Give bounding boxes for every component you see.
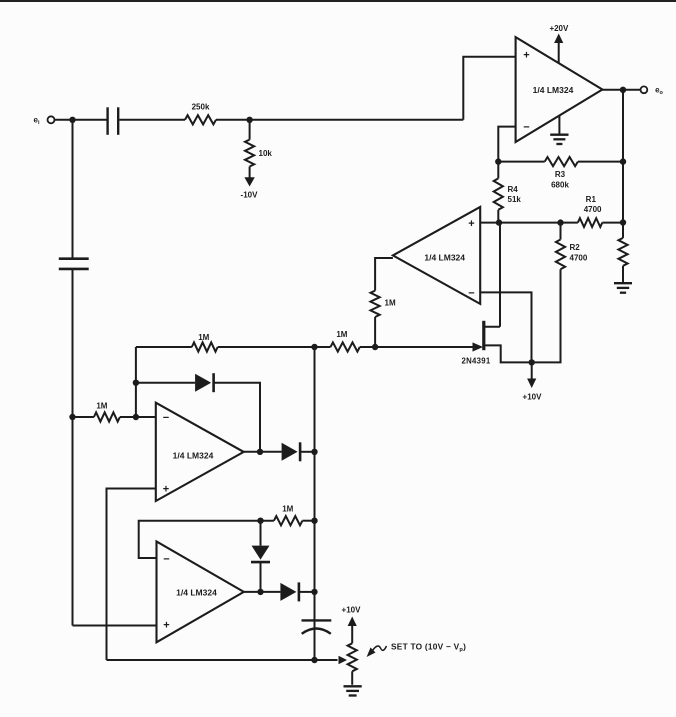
wire 1M to U3 - input — [120, 416, 156, 418]
svg-text:1M: 1M — [385, 299, 396, 308]
resistor R1 4700 — [578, 195, 602, 227]
resistor 10k — [245, 120, 272, 167]
svg-text:R3: R3 — [555, 170, 566, 179]
power -10V — [241, 177, 259, 199]
resistor 1M (U4 feedback) — [274, 505, 303, 526]
ground below pot — [344, 686, 362, 695]
node left bus at 1M — [69, 414, 75, 420]
wire capacitor to resistor 250k — [119, 119, 185, 121]
node bus at D2 — [311, 449, 317, 455]
wire D2 to bus — [300, 451, 314, 453]
svg-text:51k: 51k — [508, 195, 522, 204]
node U3 - input — [133, 414, 139, 420]
wire input to capacitor — [54, 119, 106, 121]
transistor Q1 2N4391 JFET — [461, 321, 531, 366]
node U3 output — [257, 449, 263, 455]
node bus at D4 — [311, 589, 317, 595]
op-amp U3 1/4 LM324 — [156, 403, 244, 501]
svg-text:+: + — [163, 620, 169, 632]
node bus at U4 1M — [311, 518, 317, 524]
wire U4 - feedback — [139, 521, 274, 558]
capacitor C-left (on input bus) — [59, 259, 89, 269]
svg-text:680k: 680k — [551, 181, 569, 190]
wire left bus lower — [72, 269, 74, 625]
svg-text:+: + — [163, 484, 169, 496]
node U1 output — [620, 87, 626, 93]
wire U4 output — [244, 591, 281, 593]
resistor 250k — [185, 103, 216, 125]
wire U2 - input — [480, 292, 531, 362]
svg-text:4700: 4700 — [584, 205, 602, 214]
wiper arrow into potentiometer — [339, 656, 348, 664]
wire to down diode — [260, 521, 262, 546]
resistor R4 51k — [494, 162, 522, 223]
diode D4 (U4 output) — [280, 582, 299, 601]
ground below U1 — [550, 116, 568, 144]
wire R2 bottom to source node — [532, 269, 561, 362]
capacitor C-in (series input cap) — [108, 107, 119, 135]
wire + node line U2 — [480, 222, 578, 224]
wire gate line mid — [218, 346, 331, 348]
node at 10k tap — [246, 117, 252, 123]
resistor 1M (U3 input) — [94, 402, 120, 422]
svg-text:1/4 LM324: 1/4 LM324 — [173, 451, 214, 461]
svg-text:1M: 1M — [282, 505, 293, 514]
svg-text:4700: 4700 — [570, 254, 588, 263]
wire right bus — [314, 347, 316, 660]
diode D1 (U3 feedback) — [195, 373, 214, 392]
diode D2 (U3 output) — [282, 442, 301, 461]
svg-text:+: + — [468, 218, 474, 230]
svg-text:2N4391: 2N4391 — [461, 357, 490, 366]
wire left bus upper — [72, 120, 74, 258]
wire drain up to + node — [499, 223, 501, 327]
power +10V at source — [523, 362, 543, 401]
annotation SET TO (10V - Vp) — [367, 642, 467, 658]
node gate junction — [372, 344, 378, 350]
wire 1M to gate node — [374, 317, 376, 347]
svg-text:−: − — [163, 412, 169, 424]
op-amp U2 1/4 LM324 — [393, 207, 480, 304]
svg-text:1M: 1M — [96, 402, 107, 411]
resistor 1M (U2 output) — [371, 291, 396, 317]
wire left bus to 1M — [73, 416, 94, 418]
wire bottom line — [107, 659, 338, 661]
power +10V at pot — [342, 606, 362, 644]
wire feedback line U3 left end — [135, 347, 137, 417]
svg-text:1/4 LM324: 1/4 LM324 — [533, 85, 574, 95]
wire U1 - input feedback — [498, 127, 515, 162]
node input junction — [69, 117, 75, 123]
resistor R2 4700 — [556, 223, 588, 270]
svg-text:+10V: +10V — [523, 393, 543, 402]
wire D4 to bus — [299, 591, 315, 593]
wire 1M to bus — [302, 520, 314, 522]
svg-text:250k: 250k — [192, 103, 210, 112]
wire gate line left — [136, 346, 192, 348]
svg-text:−: − — [163, 554, 169, 566]
potentiometer (vertical) — [348, 643, 357, 685]
wire 250k to step — [216, 119, 463, 121]
node R3 left — [495, 158, 501, 164]
svg-text:1M: 1M — [336, 330, 347, 339]
svg-text:+20V: +20V — [549, 24, 569, 33]
svg-text:−: − — [468, 288, 474, 300]
svg-text:−: − — [523, 122, 529, 134]
svg-text:10k: 10k — [259, 149, 273, 158]
svg-text:SET TO (10V − Vp): SET TO (10V − Vp) — [391, 642, 466, 654]
svg-text:-10V: -10V — [241, 191, 259, 200]
resistor to ground (right) — [618, 223, 627, 283]
wire D3 to output node — [260, 562, 262, 592]
svg-text:1M: 1M — [198, 333, 209, 342]
input terminal e_i — [34, 116, 55, 127]
op-amp U4 1/4 LM324 — [157, 542, 244, 643]
wire D1 to output node — [214, 383, 260, 452]
svg-text:R2: R2 — [570, 243, 581, 252]
wire R3 right — [578, 161, 623, 163]
output terminal e_o — [641, 86, 664, 97]
wire U1 output — [602, 89, 640, 91]
svg-text:R4: R4 — [508, 185, 519, 194]
wire output bus down right side — [622, 90, 624, 223]
node R4 bottom / drain — [496, 219, 502, 225]
node source junction — [529, 359, 535, 365]
capacitor C-hold (polarized) — [302, 620, 332, 633]
node R1 right — [620, 219, 626, 225]
op-amp U1 1/4 LM324 — [516, 37, 603, 142]
resistor R3 680k — [545, 157, 578, 190]
node bottom junction — [311, 657, 317, 663]
wire gate line right — [360, 346, 474, 348]
node diode feedback left — [133, 380, 139, 386]
wire R1 right — [602, 222, 623, 224]
wire step up to op-amp U1 + input — [463, 57, 515, 120]
resistor 1M (gate) — [331, 330, 360, 352]
wire U3 + input — [107, 489, 156, 661]
svg-text:R1: R1 — [586, 195, 597, 204]
resistor 1M (U3 feedback) — [192, 333, 218, 352]
node U4 output — [257, 589, 263, 595]
wire U3 output — [244, 451, 282, 453]
power +20V at U1 — [549, 24, 569, 63]
wire to feedback diode — [136, 382, 195, 384]
svg-text:1/4 LM324: 1/4 LM324 — [176, 588, 217, 598]
svg-text:1/4 LM324: 1/4 LM324 — [424, 253, 465, 263]
node bus top — [311, 344, 317, 350]
wire 10k to -10V arrow — [249, 167, 251, 180]
wire U2 output down — [375, 258, 393, 291]
diode D3 (shunt, pointing down) — [251, 546, 270, 563]
wire U4 + input — [73, 625, 157, 627]
node R3 right — [620, 158, 626, 164]
svg-text:+: + — [523, 50, 529, 62]
node U4 feedback left — [257, 518, 263, 524]
ground right resistor — [614, 283, 632, 293]
node R2 top — [557, 219, 563, 225]
svg-text:+10V: +10V — [342, 606, 362, 615]
wire R3 left — [498, 161, 544, 163]
